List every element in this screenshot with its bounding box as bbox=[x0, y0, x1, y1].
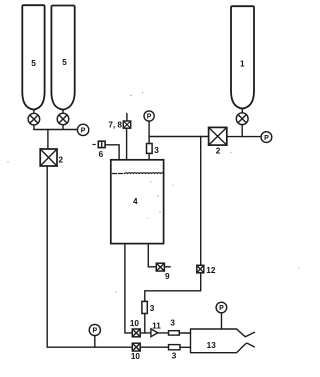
svg-text:P: P bbox=[92, 328, 97, 335]
svg-text:3: 3 bbox=[154, 146, 159, 155]
svg-text:5: 5 bbox=[31, 59, 36, 68]
svg-text:5: 5 bbox=[62, 58, 67, 67]
svg-text:2: 2 bbox=[216, 147, 221, 156]
svg-text:12: 12 bbox=[206, 266, 216, 275]
svg-text:3: 3 bbox=[170, 319, 175, 328]
svg-text:9: 9 bbox=[165, 272, 170, 281]
svg-text:3: 3 bbox=[172, 351, 177, 360]
svg-text:10: 10 bbox=[130, 319, 140, 328]
svg-text:3: 3 bbox=[150, 304, 155, 313]
svg-text:10: 10 bbox=[131, 352, 141, 361]
svg-text:4: 4 bbox=[133, 197, 138, 206]
svg-text:P: P bbox=[81, 128, 86, 135]
svg-text:P: P bbox=[147, 114, 152, 121]
svg-text:13: 13 bbox=[207, 341, 217, 350]
svg-text:P: P bbox=[219, 305, 224, 312]
svg-text:6: 6 bbox=[99, 150, 104, 159]
svg-text:1: 1 bbox=[240, 60, 245, 69]
svg-text:P: P bbox=[264, 135, 269, 142]
svg-text:11: 11 bbox=[152, 321, 161, 330]
svg-text:7, 8: 7, 8 bbox=[108, 121, 122, 130]
svg-text:2: 2 bbox=[59, 156, 64, 165]
